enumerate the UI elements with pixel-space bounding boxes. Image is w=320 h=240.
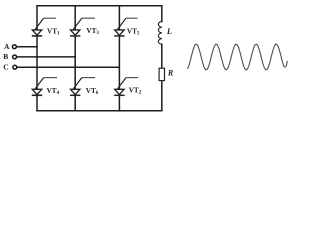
wire bottom bus xyxy=(37,110,162,112)
wire top bus xyxy=(37,5,162,7)
wire branch 2 (VT3/VT6 leg) xyxy=(74,6,76,111)
wire branch 1 (VT1/VT4 leg) xyxy=(36,6,38,111)
thyristor VT3 xyxy=(70,18,95,36)
svg-text:R: R xyxy=(167,68,174,77)
terminal C circle xyxy=(13,65,17,69)
thyristor VT1 xyxy=(32,18,56,36)
wire branch 3 (VT5/VT2 leg) xyxy=(118,6,120,111)
thyristor VT5 xyxy=(114,18,137,36)
terminal B circle xyxy=(13,55,17,59)
svg-text:C: C xyxy=(3,63,8,72)
svg-text:B: B xyxy=(3,52,8,61)
resistor R body xyxy=(159,68,164,80)
terminal A circle xyxy=(12,45,16,49)
wire right vertical to load xyxy=(161,6,163,111)
thyristor VT6 xyxy=(70,78,95,96)
wire phase B line xyxy=(17,56,75,58)
svg-text:L: L xyxy=(166,27,172,36)
wire phase A line xyxy=(17,46,37,48)
AC sine waveform xyxy=(188,44,288,70)
svg-text:A: A xyxy=(4,42,10,51)
thyristor VT4 xyxy=(32,78,57,96)
thyristor VT2 xyxy=(114,78,138,96)
wire phase C line xyxy=(17,66,119,68)
inductor L coil xyxy=(158,22,161,45)
